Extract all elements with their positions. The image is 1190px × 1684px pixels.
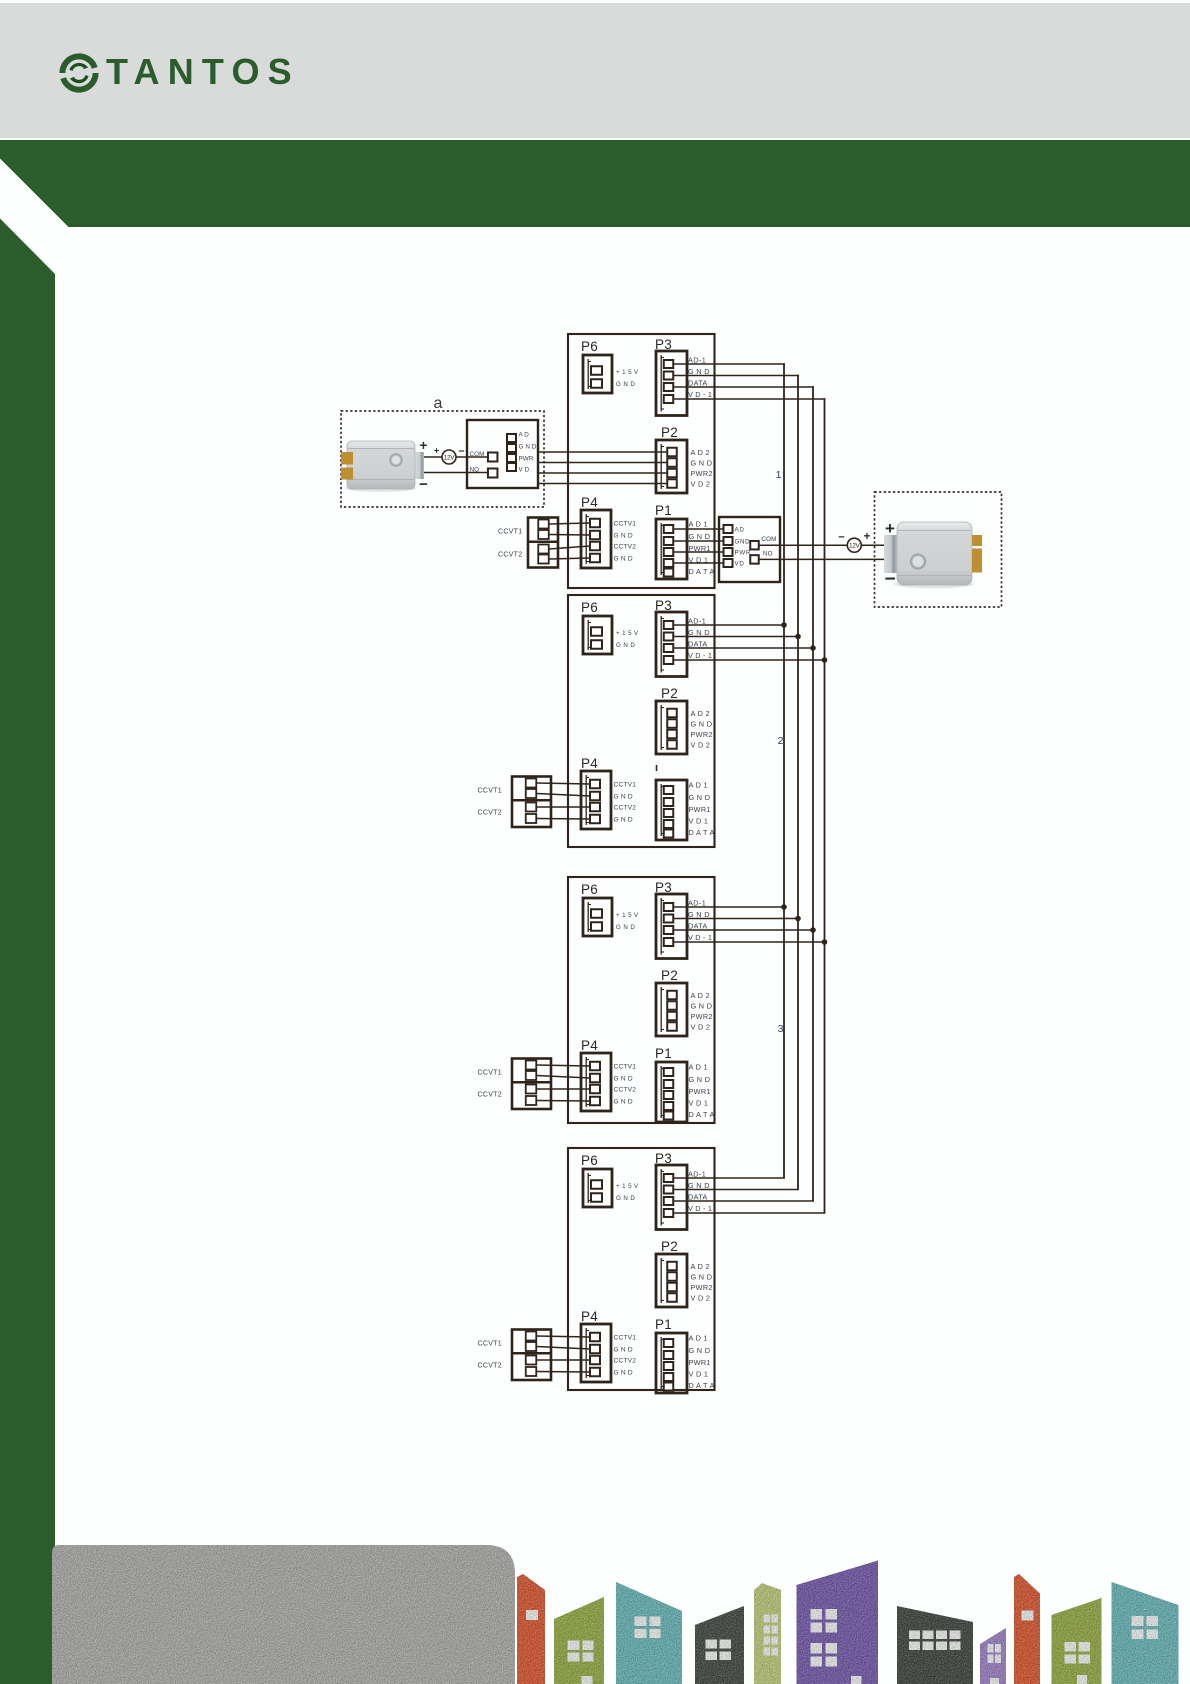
wire CCVT pin 3 to P4 (monitor 1) — [549, 546, 590, 549]
svg-text:G N D: G N D — [616, 642, 635, 649]
svg-text:a: a — [434, 395, 443, 412]
svg-text:P1: P1 — [655, 1046, 672, 1061]
svg-text:A D 2: A D 2 — [691, 709, 710, 718]
junction dot DATA (monitor 2) — [810, 645, 816, 651]
left green sidebar column — [0, 219, 55, 1684]
svg-text:PWR1: PWR1 — [689, 1087, 711, 1096]
svg-text:12V: 12V — [444, 454, 456, 461]
svg-text:+ 1 5 V: + 1 5 V — [616, 912, 639, 919]
svg-text:A D 1: A D 1 — [689, 1063, 708, 1072]
svg-text:CCTV2: CCTV2 — [614, 544, 637, 551]
svg-text:V D - 1: V D - 1 — [688, 390, 712, 399]
bus wire DATA vertical — [812, 386, 814, 1201]
TANTOS logo icon — [60, 54, 98, 92]
svg-text:P1: P1 — [655, 503, 672, 518]
building 6 (purple tall) — [797, 1561, 879, 1684]
wire CCVT pin 3 to P4 (monitor 3) — [537, 1088, 591, 1090]
wire P1 AD1 to right interface (monitor 1) — [674, 528, 725, 530]
COM terminal (right interface) — [750, 536, 776, 549]
building 10 (olive) — [1052, 1598, 1102, 1684]
svg-text:P3: P3 — [655, 598, 672, 613]
svg-text:+: + — [434, 446, 440, 457]
connector P3 (monitor 3) — [655, 880, 712, 959]
junction dot GND (monitor 3) — [795, 916, 801, 922]
wire CCVT pin 2 to P4 (monitor 3) — [537, 1076, 591, 1079]
svg-text:+ 1 5 V: + 1 5 V — [616, 369, 639, 376]
connector P3 (monitor 1) — [655, 337, 712, 416]
svg-text:+: + — [885, 519, 895, 538]
svg-text:G N D: G N D — [616, 924, 635, 931]
CCVT terminal block (monitor 4) — [478, 1330, 552, 1381]
wire P1 PWR1 to right interface (monitor 1) — [674, 551, 725, 553]
svg-text:P6: P6 — [581, 1153, 598, 1168]
svg-text:12V: 12V — [849, 543, 861, 550]
connector P3 (monitor 2) — [655, 598, 712, 677]
svg-text:V D - 1: V D - 1 — [688, 933, 712, 942]
building 2 (olive) — [554, 1597, 604, 1684]
wire CCVT pin 2 to P4 (monitor 2) — [537, 794, 591, 797]
wire left lock − to NO (left interface) — [424, 472, 488, 474]
svg-text:G N D: G N D — [688, 1181, 710, 1190]
CCVT terminal block (monitor 2) — [478, 777, 552, 828]
svg-text:COM: COM — [762, 536, 777, 543]
wire P3 GND feeder (monitor 1) — [674, 375, 799, 377]
wire CCVT pin 2 to P4 (monitor 4) — [537, 1347, 591, 1350]
svg-text:D A T A: D A T A — [689, 828, 715, 837]
connector P2 (monitor 4) — [656, 1239, 713, 1307]
svg-text:G N D: G N D — [688, 628, 710, 637]
building 7 (dark grey wide) — [897, 1606, 973, 1684]
svg-text:CCTV1: CCTV1 — [614, 782, 637, 789]
svg-text:CCVT1: CCVT1 — [478, 1341, 502, 1348]
electric lock (right) — [884, 522, 982, 589]
svg-text:G N D: G N D — [614, 794, 633, 801]
svg-text:D A T A: D A T A — [689, 567, 715, 576]
wire CCVT pin 4 to P4 (monitor 3) — [537, 1100, 591, 1103]
svg-text:G N D: G N D — [691, 459, 713, 468]
svg-text:D A T A: D A T A — [689, 1381, 715, 1390]
wire P3 DATA feeder (monitor 4) — [674, 1200, 814, 1202]
svg-text:AD-1: AD-1 — [688, 617, 706, 626]
wire left lock + to 12V battery — [424, 456, 442, 458]
svg-text:1: 1 — [776, 469, 782, 481]
svg-text:AD-1: AD-1 — [688, 356, 706, 365]
svg-text:P2: P2 — [661, 1239, 678, 1254]
svg-text:DATA: DATA — [688, 922, 708, 931]
connector P4 (monitor 2) — [581, 756, 636, 829]
wire CCVT pin 3 to P4 (monitor 4) — [537, 1359, 591, 1361]
building 3 (teal) — [616, 1582, 682, 1684]
svg-text:+: + — [864, 531, 871, 543]
wire P3 VD-1 feeder (monitor 1) — [674, 398, 826, 400]
connector P2 (monitor 3) — [656, 968, 713, 1036]
svg-text:P3: P3 — [655, 1151, 672, 1166]
svg-text:PWR2: PWR2 — [691, 730, 713, 739]
connector P3 (monitor 4) — [655, 1151, 712, 1230]
svg-text:+: + — [420, 438, 428, 453]
svg-text:+ 1 5 V: + 1 5 V — [616, 630, 639, 637]
svg-text:D A T A: D A T A — [689, 1110, 715, 1119]
svg-text:CCVT1: CCVT1 — [498, 529, 522, 536]
svg-text:CCVT1: CCVT1 — [478, 788, 502, 795]
wire P3 AD-1 feeder (monitor 1) — [674, 363, 785, 365]
svg-text:P4: P4 — [581, 1309, 598, 1324]
wire CCVT pin 2 to P4 (monitor 1) — [549, 534, 590, 537]
svg-text:G N D: G N D — [616, 381, 635, 388]
connector P6 (monitor 2) — [581, 600, 639, 654]
svg-text:V D 1: V D 1 — [689, 1099, 709, 1108]
svg-text:A D 1: A D 1 — [689, 1334, 708, 1343]
svg-text:P1: P1 — [655, 1317, 672, 1332]
svg-text:G N D: G N D — [614, 1347, 633, 1354]
building 11 (teal) — [1112, 1582, 1179, 1684]
wire P3 GND feeder (monitor 2) — [674, 636, 799, 638]
bus wire AD-1 vertical — [783, 363, 785, 1178]
dashed enclosure a — [341, 411, 544, 507]
connector P4 (monitor 1) — [581, 495, 636, 568]
connector P2 (monitor 2) — [656, 686, 713, 754]
svg-text:CCVT1: CCVT1 — [478, 1070, 502, 1077]
wire P3 AD-1 feeder (monitor 3) — [674, 906, 785, 908]
wire CCVT pin 3 to P4 (monitor 2) — [537, 806, 591, 808]
door station interface box (left) — [467, 420, 538, 488]
wire P3 DATA feeder (monitor 3) — [674, 929, 814, 931]
svg-text:G N D: G N D — [691, 1273, 713, 1282]
junction dot AD-1 (monitor 2) — [781, 622, 787, 628]
svg-text:CCVT2: CCVT2 — [478, 810, 502, 817]
svg-text:G N D: G N D — [614, 1370, 633, 1377]
svg-text:−: − — [884, 569, 895, 590]
building 1 (orange) — [517, 1574, 545, 1684]
svg-text:V D 2: V D 2 — [691, 1294, 711, 1303]
connector P4 (monitor 4) — [581, 1309, 636, 1382]
wire P3 VD-1 feeder (monitor 4) — [674, 1212, 826, 1214]
svg-text:PWR2: PWR2 — [691, 469, 713, 478]
svg-text:A D 1: A D 1 — [689, 781, 708, 790]
junction dot AD-1 (monitor 3) — [781, 904, 787, 910]
svg-text:G N D: G N D — [614, 556, 633, 563]
svg-text:A D 2: A D 2 — [691, 1262, 710, 1271]
svg-text:V D - 1: V D - 1 — [688, 1204, 712, 1213]
svg-text:G N D: G N D — [614, 1099, 633, 1106]
svg-text:CCVT2: CCVT2 — [478, 1363, 502, 1370]
svg-text:COM: COM — [470, 451, 485, 458]
building 8 (small purple) — [980, 1628, 1006, 1684]
monitor 2 outline — [568, 595, 715, 847]
wire P3 GND feeder (monitor 3) — [674, 918, 799, 920]
svg-text:CCTV2: CCTV2 — [614, 1087, 637, 1094]
dashed enclosure (right lock) — [875, 492, 1002, 607]
power supply 12V (left) — [442, 450, 456, 464]
svg-text:P2: P2 — [661, 968, 678, 983]
monitor 3 outline — [568, 877, 715, 1123]
connector P1 (monitor 2) — [656, 765, 715, 840]
monitor 4 outline — [568, 1148, 715, 1390]
building 9 (orange narrow) — [1014, 1574, 1040, 1684]
wire 12V battery to right lock + — [861, 544, 884, 546]
svg-text:PWR: PWR — [735, 550, 752, 557]
svg-text:PWR2: PWR2 — [691, 1012, 713, 1021]
footer grey panel — [52, 1545, 515, 1684]
svg-text:V D 2: V D 2 — [691, 1023, 711, 1032]
svg-text:NO: NO — [763, 551, 773, 558]
CCVT terminal block (monitor 3) — [478, 1059, 552, 1110]
power supply 12V (right) — [847, 538, 861, 552]
svg-text:A D 1: A D 1 — [689, 520, 708, 529]
wire P3 VD-1 feeder (monitor 3) — [674, 941, 826, 943]
svg-text:G N D: G N D — [689, 1346, 711, 1355]
svg-text:P6: P6 — [581, 600, 598, 615]
monitor 1 outline — [568, 334, 715, 588]
svg-text:P4: P4 — [581, 495, 598, 510]
wire P3 GND feeder (monitor 4) — [674, 1189, 799, 1191]
svg-text:V D 2: V D 2 — [691, 741, 711, 750]
green header band — [0, 140, 1190, 227]
svg-text:V D 2: V D 2 — [691, 480, 711, 489]
svg-text:PWR2: PWR2 — [691, 1283, 713, 1292]
wire CCVT pin 1 to P4 (monitor 3) — [537, 1065, 591, 1066]
wire P3 AD-1 feeder (monitor 4) — [674, 1177, 785, 1179]
svg-text:AD-1: AD-1 — [688, 1170, 706, 1179]
svg-text:A D 2: A D 2 — [691, 991, 710, 1000]
wire CCVT pin 1 to P4 (monitor 1) — [549, 523, 590, 524]
svg-text:G N D: G N D — [691, 720, 713, 729]
connector pins AD GND PWR VD (right interface) — [724, 525, 752, 568]
wire NO to right lock − — [759, 558, 884, 560]
svg-text:CCTV1: CCTV1 — [614, 1335, 637, 1342]
svg-text:P3: P3 — [655, 880, 672, 895]
svg-text:G N D: G N D — [689, 793, 711, 802]
svg-text:V D: V D — [519, 467, 530, 474]
wire P3 DATA feeder (monitor 2) — [674, 647, 814, 649]
svg-text:G N D: G N D — [614, 817, 633, 824]
svg-text:NO: NO — [470, 467, 480, 474]
wire CCVT pin 1 to P4 (monitor 2) — [537, 783, 591, 784]
svg-text:P4: P4 — [581, 1038, 598, 1053]
door station interface box (right) — [719, 517, 780, 582]
svg-text:−: − — [458, 446, 464, 458]
wire P3 VD-1 feeder (monitor 2) — [674, 659, 826, 661]
wire left interface to P2 GND (monitor 1) — [538, 462, 667, 464]
svg-text:PWR: PWR — [519, 456, 534, 463]
wire P3 AD-1 feeder (monitor 2) — [674, 624, 785, 626]
connector P1 (monitor 1) — [655, 503, 715, 579]
bus wire VD-1 vertical — [824, 398, 826, 1213]
svg-text:V D - 1: V D - 1 — [688, 651, 712, 660]
wire CCVT pin 1 to P4 (monitor 4) — [537, 1336, 591, 1337]
svg-text:G N D: G N D — [689, 532, 711, 541]
wire P1 GND to right interface (monitor 1) — [674, 540, 725, 542]
svg-text:CCTV1: CCTV1 — [614, 1064, 637, 1071]
svg-text:G N D: G N D — [688, 367, 710, 376]
COM terminal (left interface) — [470, 451, 498, 462]
NO terminal (right interface) — [750, 551, 772, 564]
electric lock (left) — [341, 441, 424, 492]
svg-text:G N D: G N D — [688, 910, 710, 919]
wire P1 VD1 to right interface (monitor 1) — [674, 562, 725, 564]
building 5 (light olive) — [754, 1583, 781, 1684]
svg-text:P6: P6 — [581, 339, 598, 354]
svg-text:A D 2: A D 2 — [691, 448, 710, 457]
svg-text:DATA: DATA — [688, 640, 708, 649]
wire P3 DATA feeder (monitor 1) — [674, 386, 814, 388]
NO terminal (left interface) — [470, 467, 498, 478]
wire 12V battery to COM (left interface) — [456, 456, 488, 458]
connector P1 (monitor 3) — [655, 1046, 715, 1122]
svg-text:G N D: G N D — [519, 444, 537, 451]
wire COM to 12V battery (right) — [759, 544, 847, 546]
svg-text:G N D: G N D — [614, 533, 633, 540]
connector P6 (monitor 3) — [581, 882, 639, 936]
svg-text:+ 1 5 V: + 1 5 V — [616, 1183, 639, 1190]
svg-text:−: − — [419, 476, 428, 493]
wire left interface to P2 PWR2 (monitor 1) — [538, 472, 667, 474]
svg-text:G N D: G N D — [614, 1076, 633, 1083]
svg-text:P2: P2 — [661, 686, 678, 701]
svg-text:G N D: G N D — [689, 1075, 711, 1084]
svg-text:2: 2 — [778, 735, 784, 747]
svg-text:CCVT2: CCVT2 — [498, 552, 522, 559]
svg-text:AD-1: AD-1 — [688, 899, 706, 908]
header grey bar — [0, 3, 1190, 138]
wire left interface to P2 VD2 (monitor 1) — [538, 483, 667, 485]
svg-text:TANTOS: TANTOS — [106, 51, 300, 92]
svg-text:G N D: G N D — [616, 1195, 635, 1202]
connector pins AD GND PWR VD (left interface) — [507, 432, 537, 474]
connector P4 (monitor 3) — [581, 1038, 636, 1111]
wire CCVT pin 4 to P4 (monitor 2) — [537, 818, 591, 821]
wire left interface to P2 AD2 (monitor 1) — [538, 451, 667, 453]
svg-text:G N D: G N D — [691, 1002, 713, 1011]
svg-text:−: − — [838, 532, 844, 544]
svg-text:P2: P2 — [661, 425, 678, 440]
wire CCVT pin 4 to P4 (monitor 1) — [549, 558, 590, 559]
junction dot DATA (monitor 3) — [810, 927, 816, 933]
connector P1 (monitor 4) — [655, 1317, 715, 1393]
CCVT terminal block (monitor 1) — [498, 518, 558, 568]
building 4 (dark grey) — [695, 1606, 744, 1684]
svg-text:3: 3 — [778, 1023, 784, 1035]
svg-text:CCTV2: CCTV2 — [614, 805, 637, 812]
svg-text:V D 1: V D 1 — [689, 817, 709, 826]
svg-text:P3: P3 — [655, 337, 672, 352]
connector P6 (monitor 4) — [581, 1153, 639, 1207]
svg-text:CCTV2: CCTV2 — [614, 1358, 637, 1365]
svg-text:A D: A D — [519, 432, 530, 439]
svg-text:PWR1: PWR1 — [689, 1358, 711, 1367]
svg-text:GND: GND — [735, 539, 751, 546]
svg-text:P6: P6 — [581, 882, 598, 897]
junction dot GND (monitor 2) — [795, 634, 801, 640]
connector P2 (monitor 1) — [656, 425, 713, 493]
wire CCVT pin 4 to P4 (monitor 4) — [537, 1371, 591, 1374]
junction dot VD-1 (monitor 2) — [822, 657, 828, 663]
svg-text:CCTV1: CCTV1 — [614, 521, 637, 528]
svg-text:AD: AD — [735, 527, 745, 534]
connector P6 (monitor 1) — [581, 339, 639, 393]
svg-text:DATA: DATA — [688, 379, 708, 388]
svg-text:VD: VD — [735, 561, 745, 568]
junction dot VD-1 (monitor 3) — [822, 939, 828, 945]
svg-text:P4: P4 — [581, 756, 598, 771]
svg-text:DATA: DATA — [688, 1193, 708, 1202]
svg-text:V D 1: V D 1 — [689, 1370, 709, 1379]
svg-text:CCVT2: CCVT2 — [478, 1092, 502, 1099]
bus wire GND vertical — [797, 375, 799, 1190]
svg-text:PWR1: PWR1 — [689, 805, 711, 814]
